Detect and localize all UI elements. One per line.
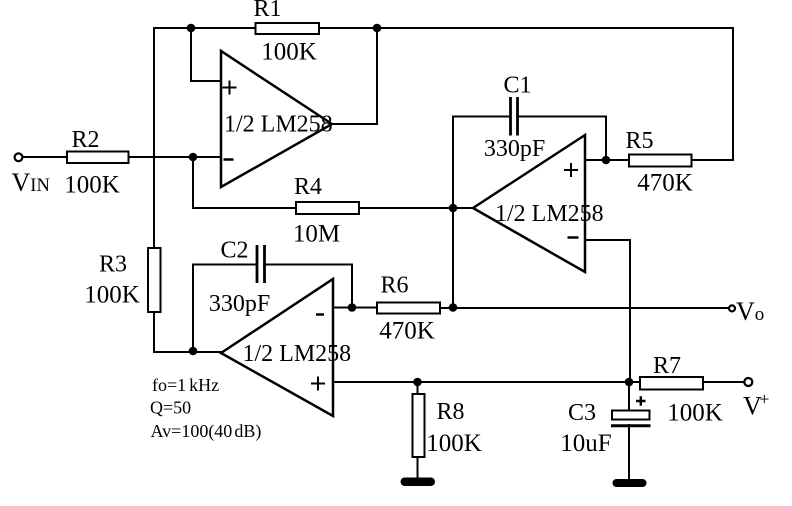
svg-text:10uF: 10uF — [560, 430, 611, 457]
resistor R6 — [377, 303, 440, 314]
terminal: Vo output — [729, 305, 735, 311]
wire: left branch down to R3 — [153, 28, 155, 248]
wire: R5 right to top bus — [691, 28, 733, 160]
resistor R3 — [148, 248, 161, 312]
terminal: V+ supply — [744, 378, 752, 386]
wire: VIN input line to U1 inverting input — [23, 156, 221, 158]
svg-text:470K: 470K — [379, 318, 435, 345]
svg-text:1/2 LM258: 1/2 LM258 — [243, 341, 352, 367]
wire: U3 output to R6 — [333, 307, 377, 309]
svg-text:100K: 100K — [64, 172, 120, 199]
svg-text:1/2 LM258: 1/2 LM258 — [495, 201, 604, 227]
node: junction dot C2 left / U3 apex — [189, 347, 198, 356]
wire: U2 plus input to R5 — [585, 159, 629, 161]
node: junction dot bottom bus / R8 — [413, 378, 422, 387]
capacitor C3 bottom plate — [611, 424, 651, 427]
op-amp U2 plus marker — [564, 163, 578, 177]
ground symbol (C3) — [613, 479, 647, 487]
capacitor C3 (polarized) top plate — [612, 411, 650, 420]
capacitor C2 plates — [257, 245, 265, 283]
wire: C3 top lead — [628, 382, 630, 411]
node: junction dot top bus / U1 plus branch — [187, 24, 196, 33]
ground symbol (R8) — [401, 478, 436, 487]
svg-text:R5: R5 — [625, 128, 653, 154]
resistor R1 — [256, 23, 320, 34]
node: junction dot R6 right / Vo line — [449, 303, 458, 312]
svg-text:1/2 LM258: 1/2 LM258 — [224, 112, 333, 138]
wire: R8 branch — [417, 382, 419, 477]
op-amp U3 minus marker — [316, 313, 324, 316]
wire: R3 bottom to op-amp U3 apex — [154, 312, 221, 352]
svg-text:R7: R7 — [653, 353, 681, 379]
node: junction dot C1 right / R5 left — [602, 156, 611, 165]
resistor R4 — [296, 202, 359, 214]
node: junction dot inverting input of U1 — [189, 153, 198, 162]
op-amp U2 (1/2 LM258) — [473, 135, 585, 272]
node: junction dot C2 right / R6 left — [348, 303, 357, 312]
wire: C1 right lead down to R5 node — [518, 117, 606, 161]
op-amp U3 (1/2 LM258) — [221, 279, 333, 416]
wire: C1 left lead — [453, 116, 510, 118]
capacitor C3 polarity plus marker — [636, 396, 646, 406]
wire: bottom bus U3 plus input to V+ — [333, 381, 744, 383]
capacitor C1 plates — [511, 97, 518, 136]
svg-text:fo=1kHz: fo=1kHz — [152, 375, 219, 395]
op-amp U3 plus marker — [311, 377, 325, 391]
svg-text:Q=50: Q=50 — [150, 398, 191, 418]
op-amp U1 plus marker — [223, 81, 237, 95]
svg-text:R8: R8 — [436, 399, 464, 425]
op-amp U1 (1/2 LM258) — [221, 51, 332, 187]
resistor R2 — [67, 152, 129, 164]
node: junction dot top bus / U1 output — [373, 24, 382, 33]
svg-text:R1: R1 — [253, 0, 281, 22]
svg-text:330pF: 330pF — [484, 136, 545, 162]
svg-text:100K: 100K — [261, 39, 317, 66]
terminal: VIN input — [15, 153, 23, 161]
svg-text:100K: 100K — [426, 430, 482, 457]
resistor R7 — [640, 377, 703, 390]
op-amp U2 minus marker — [568, 236, 579, 239]
wire: C2 right lead down to R6 left node — [264, 265, 352, 308]
svg-text:R6: R6 — [380, 273, 408, 299]
svg-text:C2: C2 — [220, 238, 248, 264]
svg-text:C3: C3 — [568, 400, 596, 426]
wire: R4 branch from inverting node to U2 apex — [193, 157, 473, 208]
svg-text:100K: 100K — [667, 400, 723, 427]
node: junction dot U2 apex / R4 — [449, 204, 458, 213]
svg-text:R2: R2 — [71, 127, 99, 153]
node: junction dot bottom bus / C3 / R7 — [625, 378, 634, 387]
wire: U2 minus input down to bottom bus — [585, 240, 630, 382]
wire: U1 non-inverting input branch — [191, 28, 221, 81]
svg-text:470K: 470K — [637, 170, 693, 197]
wire: R6 to Vo output line — [440, 307, 727, 309]
svg-text:10M: 10M — [293, 221, 340, 248]
resistor R8 — [413, 394, 425, 457]
resistor R5 — [629, 155, 692, 167]
wire: top feedback bus — [154, 27, 733, 29]
wire: vertical net C1-left / U2 apex / R6 right — [452, 117, 454, 309]
svg-text:330pF: 330pF — [209, 291, 270, 317]
svg-text:100K: 100K — [84, 282, 140, 309]
svg-text:R4: R4 — [294, 174, 322, 200]
op-amp U1 minus marker — [224, 158, 234, 161]
svg-text:Av=100(40dB): Av=100(40dB) — [151, 421, 262, 442]
wire: U1 output to top bus — [332, 28, 377, 124]
wire: C3 bottom lead to ground — [628, 425, 630, 478]
svg-text:R3: R3 — [99, 252, 127, 278]
svg-text:C1: C1 — [503, 73, 531, 99]
wire: C2 left lead down to U3 apex node — [193, 265, 257, 352]
